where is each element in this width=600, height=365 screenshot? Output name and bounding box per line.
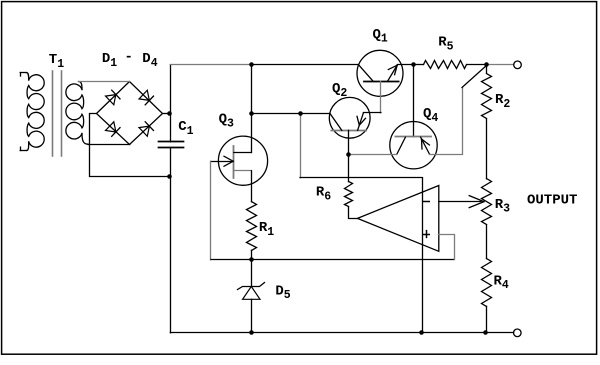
output terminal - — [514, 329, 522, 337]
wire node to R5 — [414, 64, 424, 66]
wire R3 to R4 — [486, 225, 488, 259]
wire top rail left segment — [170, 64, 251, 66]
diode D2 (bottom-right edge) — [139, 126, 149, 136]
junction Q2 base / Q4 collector / R6 — [346, 152, 351, 157]
wire branch to Q2 collector — [251, 113, 330, 115]
transistor Q2 — [329, 97, 370, 138]
junction R4 / bottom rail — [483, 330, 488, 335]
svg-text:1: 1 — [57, 58, 64, 71]
wire to output terminal + — [487, 64, 514, 66]
svg-text:5: 5 — [284, 289, 291, 302]
wire ref to D5 — [251, 260, 253, 286]
wire Q4 emitter elbow — [430, 88, 463, 155]
junction C1-bottom / bridge-negative — [167, 174, 172, 179]
svg-text:T: T — [49, 52, 57, 68]
wire Q4 emitter slant to output node — [462, 65, 487, 87]
svg-text:3: 3 — [227, 117, 234, 130]
wire R2 to R3 — [486, 119, 488, 179]
svg-text:Q: Q — [373, 27, 381, 43]
diode D3 (left-top edge) — [106, 95, 116, 105]
transformer T1 — [20, 73, 22, 76]
wire inverting input to R3 wiper — [439, 201, 481, 203]
op-amp plus sign — [423, 234, 429, 236]
wire noninverting input elbow — [439, 235, 455, 260]
wire C1 bottom to bottom rail — [170, 148, 172, 333]
resistor R6 — [345, 182, 353, 207]
junction top rail / Q3 drain — [249, 62, 254, 67]
resistor R1 — [247, 202, 257, 251]
wire Q1 base vertical — [380, 81, 382, 113]
svg-text:1: 1 — [381, 33, 388, 46]
wire Q1 emitter to node — [397, 64, 414, 66]
svg-text:4: 4 — [431, 112, 438, 125]
resistor R2 — [482, 74, 492, 119]
wire node to R6 — [348, 155, 350, 182]
op-amp minus sign — [423, 201, 429, 203]
junction Q3 drain / branch — [249, 111, 254, 116]
diode D4 (left-bottom edge) — [106, 122, 116, 132]
svg-text:D: D — [142, 51, 150, 67]
wire output node to R2 — [486, 65, 488, 74]
transistor Q4 — [390, 122, 437, 169]
R3 wiper arrow — [469, 196, 484, 202]
wire R6 to op-amp output — [349, 207, 358, 219]
wire Q1 base to Q2 emitter — [363, 112, 381, 114]
svg-text:-: - — [125, 50, 133, 66]
junction branch / Q2-collector-net down — [298, 111, 303, 116]
junction bridge+ / C1 — [167, 111, 172, 116]
wire Q2 collector net right — [300, 177, 422, 179]
svg-text:2: 2 — [340, 87, 347, 100]
zener diode D5 — [238, 283, 265, 290]
wire Q3 gate down — [210, 161, 212, 260]
wire Q3 source to R1 — [251, 171, 253, 202]
svg-text:1: 1 — [267, 226, 274, 239]
wire top rail to Q1 collector — [251, 64, 358, 66]
svg-text:Q: Q — [219, 112, 227, 128]
wire secondary top to bridge AC1 — [79, 81, 130, 83]
bridge rectifier D1-D4 frame — [97, 82, 163, 145]
junction at bottom rail — [419, 330, 424, 335]
transistor Q3 (JFET) — [218, 136, 267, 185]
wire Q2 base down — [348, 130, 350, 155]
resistor R5 — [424, 61, 467, 69]
diode D1 (top-right edge) — [139, 90, 149, 100]
svg-text:2: 2 — [503, 98, 510, 111]
svg-text:3: 3 — [503, 203, 510, 216]
svg-text:1: 1 — [110, 57, 117, 70]
wire D5 to bottom rail — [251, 299, 253, 333]
svg-text:Q: Q — [332, 81, 340, 97]
wire bottom rail — [170, 332, 513, 334]
wire bridge positive to C1 node — [163, 113, 170, 115]
wire Q4 base — [413, 65, 415, 137]
svg-text:D: D — [275, 283, 283, 299]
junction output node top — [484, 62, 489, 67]
wire secondary bottom to bridge AC2 — [88, 144, 130, 146]
resistor R4 — [482, 259, 492, 307]
svg-text:Q: Q — [423, 106, 431, 122]
svg-text:5: 5 — [447, 41, 454, 54]
wire R1 bottom — [251, 250, 253, 260]
wire Q3 drain — [251, 65, 253, 153]
svg-text:D: D — [102, 51, 110, 67]
wire R5 to output node — [467, 64, 487, 66]
wire Q4 collector to node — [348, 154, 397, 156]
wire Q2 collector net down — [300, 113, 302, 177]
svg-text:OUTPUT: OUTPUT — [527, 192, 577, 208]
junction R1 / D5 / ref — [249, 257, 254, 262]
svg-text:4: 4 — [151, 57, 158, 70]
wire Q2 collector net to bottom rail — [422, 178, 424, 333]
svg-text:1: 1 — [187, 125, 194, 138]
wire reference node horizontal — [211, 259, 454, 261]
wire R4 to bottom rail — [486, 306, 488, 333]
junction D5 / bottom rail — [249, 330, 254, 335]
svg-text:4: 4 — [502, 279, 509, 292]
wire positive vertical C1 top — [170, 65, 172, 142]
wire bridge negative corner down — [90, 114, 170, 177]
output terminal + — [514, 61, 522, 69]
svg-text:6: 6 — [324, 190, 331, 203]
potentiometer R3 — [482, 179, 492, 225]
op-amp U1 — [357, 186, 438, 252]
transistor Q1 — [357, 50, 403, 96]
junction Q1 emitter / R5 / Q4 base — [411, 62, 416, 67]
capacitor C1 — [159, 141, 184, 143]
